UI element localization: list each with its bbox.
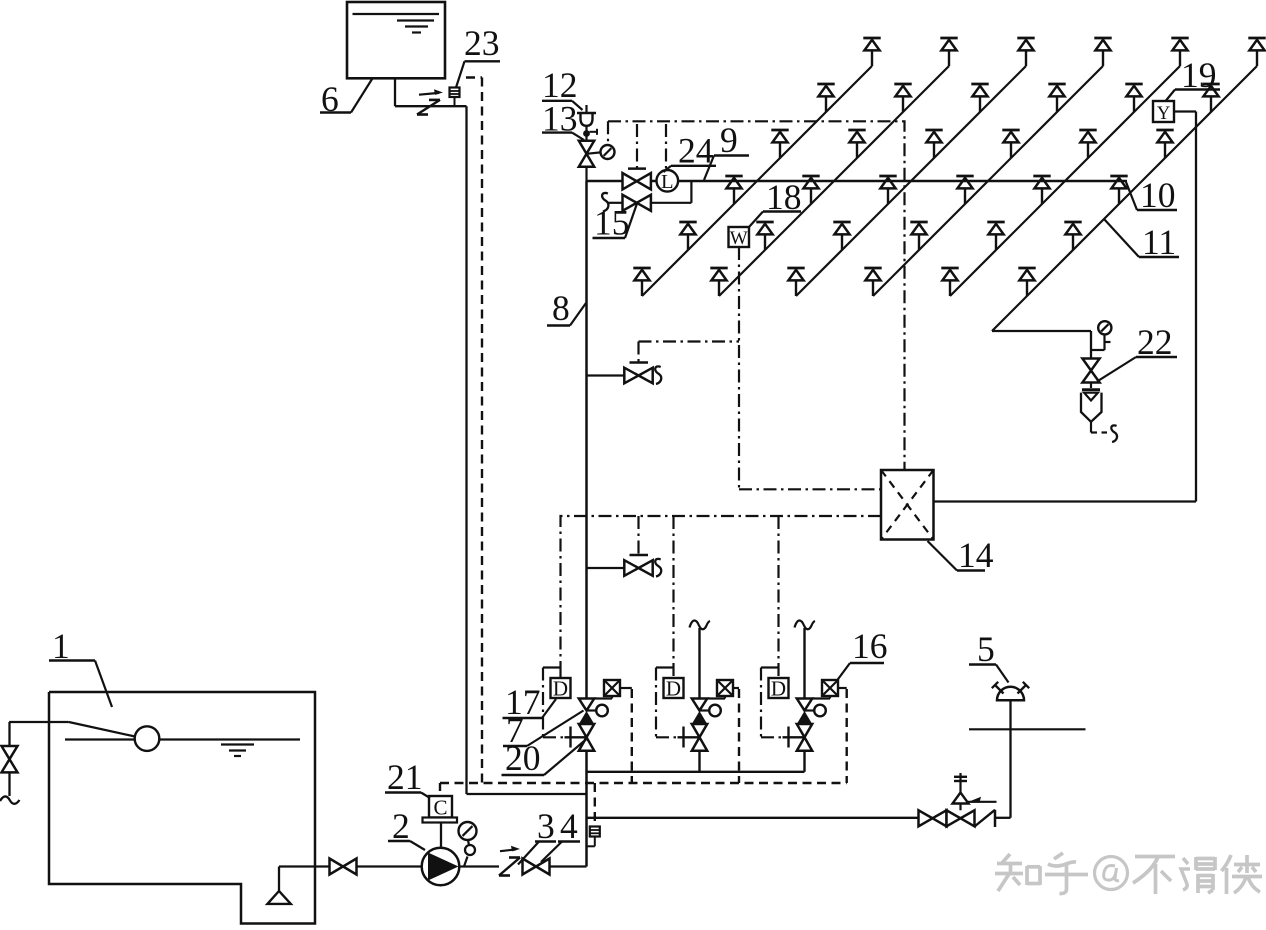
unit 3 pressure switch box <box>822 680 838 696</box>
unit 1 D bracket (dash-dot wire) <box>543 668 565 738</box>
alarm valve unit 2: solenoid box D <box>664 677 684 701</box>
label 3 <box>518 806 556 865</box>
tank 1 water level <box>65 740 300 757</box>
label 9 <box>704 120 749 180</box>
unit 3 D signal drop (dash-dot wire) <box>777 516 779 678</box>
label 13 <box>542 99 584 141</box>
lower test valve signal (dash-dot wire) <box>637 516 639 555</box>
unit 2 stem to manifold (wire) <box>698 751 700 772</box>
valve 13 <box>579 141 594 154</box>
label 12 <box>542 65 583 110</box>
label 19 <box>1166 55 1220 101</box>
upper test valve signal horizontal (dash-dot wire) <box>639 340 740 342</box>
alarm units bottom manifold (wire) <box>587 771 805 773</box>
label 6 <box>320 78 373 120</box>
unit 3 pressure switch signal (dashed wire) <box>846 689 848 783</box>
pressure gauge at 13 <box>587 145 615 159</box>
test fire hydrant 5 <box>992 682 1029 701</box>
watermark zhihu <box>995 853 1262 894</box>
sprinkler head row4 branch2 <box>802 176 819 204</box>
label 10 <box>1126 175 1177 215</box>
roof line (wire) <box>969 728 1086 730</box>
svg-text:8: 8 <box>552 288 570 328</box>
lower test valve drain squiggle <box>655 559 661 577</box>
alarm valve unit 3: solenoid box D <box>769 677 789 701</box>
tank 6 (elevated water tank) <box>347 2 445 78</box>
sprinkler head row3 branch1 <box>771 130 788 158</box>
FDC auto air vent <box>953 773 969 810</box>
gate valve 4 <box>523 859 537 875</box>
label 7 <box>503 710 584 750</box>
end test valve 22 <box>1082 359 1099 371</box>
svg-text:21: 21 <box>387 757 423 797</box>
label 23 <box>456 23 500 88</box>
float valve <box>9 722 159 751</box>
FDC gate valve B <box>947 810 961 826</box>
test drain funnel 12 <box>577 105 596 126</box>
svg-text:17: 17 <box>505 682 541 722</box>
sprinkler head row4 branch3 <box>879 176 896 204</box>
FDC pipe to standpipe (wire) <box>995 700 1011 818</box>
pump controller C 21 <box>423 796 458 848</box>
svg-text:14: 14 <box>958 535 994 575</box>
label 5 <box>969 629 1009 683</box>
label 22 <box>1097 322 1177 382</box>
label 17 <box>503 682 557 722</box>
svg-text:D: D <box>553 677 568 701</box>
unit 3 alarm test circle <box>805 705 826 717</box>
sprinkler head row3 branch2 <box>848 130 865 158</box>
svg-text:23: 23 <box>464 23 500 63</box>
smoke detector Y 19 <box>1153 101 1174 124</box>
svg-text:3: 3 <box>537 806 555 846</box>
pressure switch 23 <box>450 88 460 106</box>
sprinkler head row4 branch5 <box>1033 176 1050 204</box>
label 1 <box>49 626 112 707</box>
sprinkler head row5 branch4 <box>910 222 927 250</box>
branch line B4 (wire) <box>873 66 1103 296</box>
pump discharge pipe (wire) <box>459 865 499 867</box>
sprinkler head row6 branch5 <box>941 268 958 296</box>
water flow indicator 24 <box>657 170 679 193</box>
svg-text:4: 4 <box>560 806 578 846</box>
lower section test valve <box>624 555 652 576</box>
drain valve 15 <box>623 195 637 211</box>
upper test valve signal (dash-dot wire) <box>637 342 639 363</box>
unit 1 D signal drop (dash-dot wire) <box>559 672 561 679</box>
unit 2 riser with vent curl (wire) <box>690 621 711 699</box>
unit 1 pressure switch connectors (wire) <box>594 688 632 699</box>
svg-text:16: 16 <box>852 626 888 666</box>
unit 3 check valve (filled) <box>797 711 812 724</box>
label 14 <box>928 535 994 575</box>
upper section test valve <box>624 363 652 384</box>
unit 1 pressure switch box <box>604 680 620 696</box>
signal bus to D solenoids (dash-dot wire) <box>561 516 882 672</box>
unit 3 alarm valve (top) <box>797 699 812 711</box>
sprinkler head row5 branch1 <box>679 222 696 250</box>
signal line from 23 (dashed wire) <box>466 78 482 784</box>
sprinkler head row5 branch6 <box>1064 222 1081 250</box>
branch line B2 (wire) <box>719 66 949 296</box>
drain squiggle at 15 <box>602 193 608 211</box>
bypass to drain valve 15 (wire) <box>608 181 691 203</box>
signal line from W to controller (dash-dot wire) <box>739 247 881 489</box>
svg-text:5: 5 <box>977 629 995 669</box>
FDC check valve <box>967 797 997 827</box>
sprinkler head row6 branch2 <box>710 268 727 296</box>
unit 2 alarm test circle <box>700 705 721 717</box>
pressure gauge at end test <box>1098 321 1111 334</box>
unit 3 D bracket (dash-dot wire) <box>761 668 783 738</box>
sprinkler head row6 branch1 <box>633 268 650 296</box>
FDC gate valve A <box>919 810 933 826</box>
label 15 <box>593 203 638 243</box>
unit 1 alarm test circle <box>587 705 608 717</box>
FDC branch pipe (wire) <box>587 817 919 819</box>
alarm controller 14 <box>881 470 934 540</box>
branch line B3 (wire) <box>796 66 1026 296</box>
svg-text:W: W <box>730 228 748 249</box>
controller output line (wire) <box>934 112 1197 502</box>
branch line B6 (wire) <box>992 66 1257 331</box>
unit 2 D bracket (dash-dot wire) <box>656 668 678 738</box>
svg-text:24: 24 <box>678 131 714 171</box>
svg-text:D: D <box>666 677 681 701</box>
sprinkler head row3 branch3 <box>925 130 942 158</box>
unit 3 riser with vent curl (wire) <box>795 621 816 699</box>
stem below valve 13 (wire) <box>585 167 587 181</box>
sprinkler head row2 branch5 <box>1125 84 1142 112</box>
end test connection pipe (wire) <box>1091 331 1111 359</box>
sprinkler head row2 branch3 <box>971 84 988 112</box>
riser pressure switch signal (dashed wire) <box>594 783 596 827</box>
sprinkler head row2 branch2 <box>894 84 911 112</box>
svg-text:D: D <box>771 677 786 701</box>
sprinkler head row3 branch6 <box>1156 130 1173 158</box>
label 16 <box>837 626 888 681</box>
tank 1 inlet valve <box>2 722 18 796</box>
sprinkler head row4 branch6 <box>1110 176 1127 204</box>
label 4 <box>541 806 580 862</box>
unit 2 solenoid cross connector <box>678 727 700 748</box>
unit 1 solenoid cross connector <box>565 727 587 748</box>
test valve cock 13 stem <box>583 126 597 141</box>
alarm valve unit 1: solenoid box D <box>551 677 571 701</box>
unit 3 solenoid cross connector <box>783 727 805 748</box>
sprinkler head row2 branch4 <box>1048 84 1065 112</box>
label 24 <box>664 131 717 173</box>
sprinkler head row6 branch3 <box>787 268 804 296</box>
sprinkler head row4 branch1 <box>725 176 742 204</box>
unit 1 signal control valve <box>579 724 594 751</box>
sprinkler head row5 branch2 <box>756 222 773 250</box>
sprinkler head row1 branch3 <box>1017 38 1034 66</box>
label 11 <box>1104 219 1179 262</box>
supply squiggle <box>0 796 20 803</box>
suction pipe (wire) <box>279 865 329 867</box>
svg-text:15: 15 <box>594 203 630 243</box>
sprinkler head row4 branch4 <box>956 176 973 204</box>
unit 3 signal control valve <box>797 724 812 751</box>
pipe valve4 to riser (wire) <box>550 865 587 867</box>
sprinkler head row3 branch5 <box>1079 130 1096 158</box>
tank 6 outlet pipe (wire) <box>395 78 587 794</box>
pipe to pump (wire) <box>357 865 423 867</box>
main distribution pipe 9 <box>587 180 1128 182</box>
sprinkler head row5 branch5 <box>987 222 1004 250</box>
fire pump 2 <box>422 848 460 886</box>
sprinkler head row6 branch4 <box>864 268 881 296</box>
check valve 3 <box>499 846 520 876</box>
label 2 <box>388 806 425 850</box>
svg-text:9: 9 <box>720 120 738 160</box>
upper section test valve (wire stub) <box>587 374 625 376</box>
sprinkler head row1 branch6 <box>1248 38 1265 66</box>
unit 2 pressure switch signal (dashed wire) <box>738 689 740 783</box>
svg-text:20: 20 <box>505 738 541 778</box>
pump room boundary (dashed wire) <box>440 783 847 791</box>
signal line top bus (dash-dot wire) <box>608 121 905 470</box>
sprinkler head row5 branch3 <box>833 222 850 250</box>
sprinkler head row1 branch2 <box>940 38 957 66</box>
label 18 <box>749 177 802 227</box>
sprinkler head row1 branch1 <box>863 38 880 66</box>
sprinkler head row1 branch5 <box>1171 38 1188 66</box>
unit 2 pressure switch connectors (wire) <box>707 688 739 699</box>
drain funnel below 22 <box>1081 383 1107 433</box>
tank 1 (water reservoir) <box>49 692 315 924</box>
svg-text:C: C <box>433 796 447 820</box>
sprinkler head row3 branch4 <box>1002 130 1019 158</box>
check valve on tank 6 outlet <box>417 89 443 114</box>
unit 2 check valve (filled) <box>692 711 707 724</box>
branch line B5 (wire) <box>950 66 1180 296</box>
heat detector W 18 <box>729 227 750 249</box>
lower section test valve (wire stub) <box>587 567 625 569</box>
unit 2 alarm valve (top) <box>692 699 707 711</box>
branch line B1 (wire) <box>642 66 872 296</box>
suction gate valve <box>330 859 344 875</box>
unit 3 stem to manifold (wire) <box>803 751 805 772</box>
pump discharge gauge <box>459 822 477 867</box>
unit 1 alarm valve (top) <box>579 699 594 711</box>
sprinkler head row2 branch6 <box>1202 84 1219 112</box>
sprinkler head row1 branch4 <box>1094 38 1111 66</box>
svg-text:L: L <box>661 171 674 193</box>
unit 1 pressure switch signal (dashed wire) <box>631 689 633 783</box>
sprinkler head row2 branch1 <box>817 84 834 112</box>
unit 2 D signal drop (dash-dot wire) <box>672 516 674 678</box>
sprinkler head row6 branch6 <box>1018 268 1035 296</box>
label 21 <box>385 757 430 798</box>
suction strainer <box>267 867 290 904</box>
upper test valve drain squiggle <box>655 366 661 384</box>
unit 1 check valve (filled) <box>579 711 594 724</box>
drain squiggle at 22 <box>1111 425 1117 442</box>
svg-text:Y: Y <box>1157 104 1170 124</box>
riser pipe 8 (wire) <box>585 181 588 867</box>
unit 2 signal control valve <box>692 724 707 751</box>
label 20 <box>502 738 587 778</box>
signal gate valve on main pipe <box>623 169 651 190</box>
unit 3 pressure switch connectors (wire) <box>812 688 847 699</box>
label 8 <box>547 288 586 328</box>
unit 2 pressure switch box <box>717 680 733 696</box>
riser pressure switch <box>587 827 600 847</box>
